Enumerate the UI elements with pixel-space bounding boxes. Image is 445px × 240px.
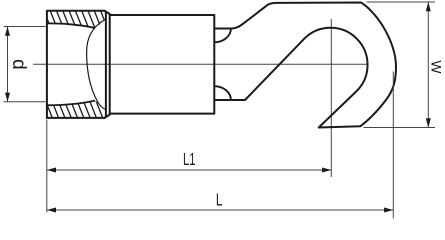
left extension line for L/L1 (46, 120, 48, 213)
svg-text:W: W (428, 60, 444, 74)
body rectangle (110, 15, 215, 114)
W arrow down (426, 118, 431, 127)
L1 dimension line (47, 169, 332, 171)
hatching of barrel top wall (cross-section) (42, 6, 117, 36)
L arrow left (47, 208, 56, 213)
svg-text:L: L (216, 190, 223, 210)
hatching of barrel bottom wall (cross-section) (42, 92, 117, 122)
bore flare top curve (47, 23, 95, 28)
L arrow right (384, 208, 393, 213)
insulation barrel outline (47, 11, 110, 118)
neck and hook outline (214, 3, 396, 128)
d dimension line (7, 27, 9, 101)
centerline hook vertical (330, 19, 332, 177)
L1 arrow right (322, 168, 331, 173)
centerline horizontal (33, 63, 367, 65)
W dimension line (427, 3, 429, 128)
L dimension line (47, 209, 394, 211)
d dimension extension lines (4, 26, 46, 28)
bore flare bottom curve (47, 101, 95, 106)
neck transition quarter arc top (214, 29, 231, 43)
L1 arrow left (47, 168, 56, 173)
neck transition quarter arc bottom (214, 86, 231, 100)
d arrow up (5, 27, 10, 36)
right extension line for L (392, 72, 394, 219)
svg-text:d: d (8, 59, 29, 70)
W arrow up (426, 2, 431, 11)
d arrow down (5, 93, 10, 102)
W dimension extension lines (367, 1, 436, 3)
barrel sleeve end edge (second line of double) (109, 14, 111, 115)
bore end arc (87, 19, 106, 110)
svg-text:L1: L1 (183, 149, 196, 169)
